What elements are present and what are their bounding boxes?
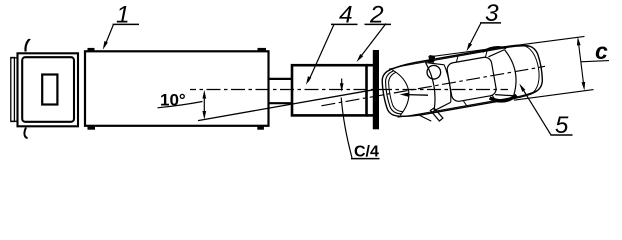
bump bottom right: [257, 127, 264, 130]
angle leader: [158, 102, 203, 108]
front bumper inner line: [383, 71, 401, 116]
C pillar far: [488, 50, 505, 57]
label 4: [339, 1, 353, 28]
label 2: [369, 1, 384, 28]
roof panel: [446, 56, 497, 102]
trolley inner box: [22, 57, 74, 122]
bump top right: [258, 48, 267, 51]
neck bottom: [268, 102, 292, 104]
trolley back plate: [11, 58, 15, 122]
door seam 2 near: [492, 95, 495, 101]
front wheel near (steered): [430, 107, 443, 122]
car body outline: [379, 41, 546, 121]
label 3: [485, 0, 499, 27]
rear window edge: [504, 48, 519, 95]
trolley hook bottom: [24, 128, 27, 139]
width line near: [514, 90, 594, 101]
car (item 3): [316, 36, 551, 140]
trolley outer box: [18, 53, 79, 126]
front wheel far (steered): [428, 55, 436, 63]
door seam 1 near: [463, 100, 466, 106]
long body rect (item 1): [85, 51, 269, 126]
label 5: [555, 112, 569, 139]
bump top left: [88, 48, 95, 51]
A pillar far: [426, 59, 445, 68]
c label shelf: [581, 61, 610, 62]
rear wheel far: [482, 45, 506, 52]
impact plate (item 2): [373, 50, 379, 129]
block edge extension top: [366, 64, 374, 67]
windshield front edge: [426, 62, 439, 111]
horizontal centerline: [190, 89, 508, 91]
svg-text:10°: 10°: [160, 91, 186, 110]
rear wheel near: [490, 93, 518, 103]
label C/4: [354, 143, 379, 160]
front wheel near edge line: [420, 114, 432, 123]
trolley bracket bottom: [11, 120, 18, 122]
svg-text:C/4: C/4: [354, 143, 379, 160]
trolley bracket top: [11, 57, 18, 59]
angle arrow: [203, 94, 205, 117]
rear bumper seam: [523, 43, 543, 94]
trolley slot: [42, 75, 57, 105]
block edge extension bottom: [366, 114, 374, 117]
impact path line 10deg: [198, 90, 374, 121]
A pillar near: [433, 102, 452, 111]
door seam 2 far: [485, 51, 488, 57]
steering wheel: [426, 64, 442, 80]
side belt line near: [397, 91, 537, 118]
bump bottom left: [88, 127, 96, 130]
impactor block (item 4): [292, 65, 367, 115]
width line far: [428, 36, 585, 57]
C pillar near: [495, 92, 513, 99]
door seam 1 far: [455, 56, 458, 62]
windshield top edge: [444, 64, 453, 102]
trolley hook top: [25, 40, 30, 52]
svg-text:c: c: [595, 38, 608, 64]
car axis centerline: [321, 66, 545, 105]
direction arrow: [407, 94, 428, 97]
C/4 offset dimension: [341, 98, 352, 158]
label 1: [116, 1, 130, 28]
width dim arrow c: [578, 42, 583, 84]
hood line: [392, 68, 412, 115]
neck top: [268, 78, 292, 80]
side belt line far: [389, 44, 529, 71]
label c: [595, 38, 608, 64]
front bumper line 3: [386, 72, 402, 113]
